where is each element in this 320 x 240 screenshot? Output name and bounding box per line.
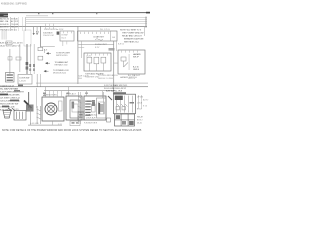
svg-text:W-L 1.25 G: W-L 1.25 G	[100, 29, 110, 31]
svg-text:X-11 P-W MAIN SW 23-11: X-11 P-W MAIN SW 23-11	[104, 84, 128, 87]
svg-text:BOX 2: BOX 2	[137, 120, 143, 122]
svg-text:B-LG: B-LG	[62, 38, 67, 40]
svg-text:SEE PAGE 23-4: SEE PAGE 23-4	[124, 41, 139, 44]
svg-text:G-W 1.25 B: G-W 1.25 B	[78, 75, 89, 77]
svg-text:G-W 16 X-0: G-W 16 X-0	[86, 114, 97, 116]
svg-text:CIGAR SET: CIGAR SET	[93, 36, 105, 39]
svg-text:IG1 B-R 20: IG1 B-R 20	[0, 24, 10, 26]
svg-text:RETRACT 23-8: RETRACT 23-8	[55, 64, 69, 67]
svg-text:G 204 B X-01 JT: G 204 B X-01 JT	[0, 85, 15, 87]
svg-text:15A ROOM: 15A ROOM	[43, 34, 54, 37]
svg-text:ST 30 J: ST 30 J	[11, 29, 17, 31]
svg-text:THE POWER WINDOW: THE POWER WINDOW	[122, 33, 144, 35]
svg-text:W-L 30A FUSE MAIN: W-L 30A FUSE MAIN	[0, 87, 19, 90]
svg-text:IG 5A 30: IG 5A 30	[11, 17, 19, 20]
svg-text:SWITCH 23-5: SWITCH 23-5	[56, 55, 68, 57]
svg-text:L-R JOINT CONN X-12: L-R JOINT CONN X-12	[0, 97, 21, 99]
svg-text:UP DN: UP DN	[137, 97, 143, 99]
svg-text:MODULE 23-12: MODULE 23-12	[53, 73, 67, 75]
svg-text:R-G ILLUMI R-B L-W X2: R-G ILLUMI R-B L-W X2	[104, 88, 127, 90]
svg-text:TN 10 B1: TN 10 B1	[11, 24, 19, 26]
svg-text:HAZARD: HAZARD	[133, 53, 141, 56]
svg-text:E 16: E 16	[143, 106, 147, 108]
svg-text:LOCK B-R: LOCK B-R	[86, 117, 96, 119]
svg-text:BREAKER 30A FUSE: BREAKER 30A FUSE	[124, 38, 144, 41]
svg-text:P-W MOTOR R: P-W MOTOR R	[84, 122, 98, 124]
svg-text:L-R 23: L-R 23	[20, 81, 27, 83]
svg-text:TO 23-10 RR DEFOG: TO 23-10 RR DEFOG	[98, 75, 118, 77]
svg-text:RELAY: RELAY	[137, 116, 144, 119]
svg-text:B 2V: B 2V	[95, 47, 100, 49]
svg-text:SW 2P: SW 2P	[133, 57, 140, 59]
svg-text:BAT L 15A: BAT L 15A	[0, 20, 9, 23]
svg-text:RM 15 E: RM 15 E	[11, 27, 19, 29]
svg-text:P-W MOTOR L: P-W MOTOR L	[44, 94, 58, 96]
svg-text:B40 W-L 30: B40 W-L 30	[0, 18, 10, 20]
svg-text:DOOR SW: DOOR SW	[20, 77, 30, 79]
svg-text:AUTO: AUTO	[143, 99, 149, 102]
svg-text:B-W 10A X2 L-R 1.25 GX: B-W 10A X2 L-R 1.25 GX	[0, 42, 23, 45]
svg-text:AC 15 X2: AC 15 X2	[11, 20, 19, 23]
svg-text:RELAY AND CIRCUIT: RELAY AND CIRCUIT	[122, 35, 142, 38]
svg-text:DEFOG 2.0 W-B: DEFOG 2.0 W-B	[98, 78, 114, 80]
svg-text:B-L 15A X-02: B-L 15A X-02	[128, 74, 141, 77]
svg-text:49 B036 0A0 : SUPP MX5: 49 B036 0A0 : SUPP MX5	[1, 3, 27, 6]
svg-text:30A MAIN: 30A MAIN	[43, 31, 53, 34]
svg-text:GND E: GND E	[133, 69, 140, 71]
svg-text:23-15: 23-15	[137, 123, 142, 125]
svg-text:B-W 15A G-L W-B: B-W 15A G-L W-B	[106, 90, 123, 93]
svg-text:TNS R-B 10: TNS R-B 10	[0, 29, 10, 31]
svg-text:NOTE: W-L WIRE TO X: NOTE: W-L WIRE TO X	[120, 30, 142, 32]
svg-text:B-R 05: B-R 05	[118, 44, 124, 46]
svg-text:X-22: X-22	[58, 124, 62, 126]
svg-text:IG SW: IG SW	[62, 35, 68, 37]
svg-text:G-R 2.0: G-R 2.0	[128, 78, 136, 80]
svg-text:LOCK: LOCK	[137, 103, 143, 105]
svg-text:NOTE: FOR DETAILS OF THE POWER: NOTE: FOR DETAILS OF THE POWER WINDOW AN…	[2, 129, 142, 132]
svg-text:W-R DOOR KEY SW: W-R DOOR KEY SW	[0, 103, 18, 105]
svg-text:E-05 GND: E-05 GND	[30, 123, 39, 125]
svg-text:HORN: HORN	[13, 109, 19, 111]
svg-text:W-B: W-B	[78, 78, 83, 80]
svg-text:FLASH UNIT: FLASH UNIT	[95, 43, 107, 46]
svg-text:ACC W 15: ACC W 15	[0, 26, 9, 29]
svg-text:B 2.0: B 2.0	[137, 109, 141, 111]
svg-text:JB-02 W-R 15A B-Y J5: JB-02 W-R 15A B-Y J5	[0, 45, 21, 48]
svg-text:X-05 POWER WINDOW RY: X-05 POWER WINDOW RY	[0, 91, 25, 93]
